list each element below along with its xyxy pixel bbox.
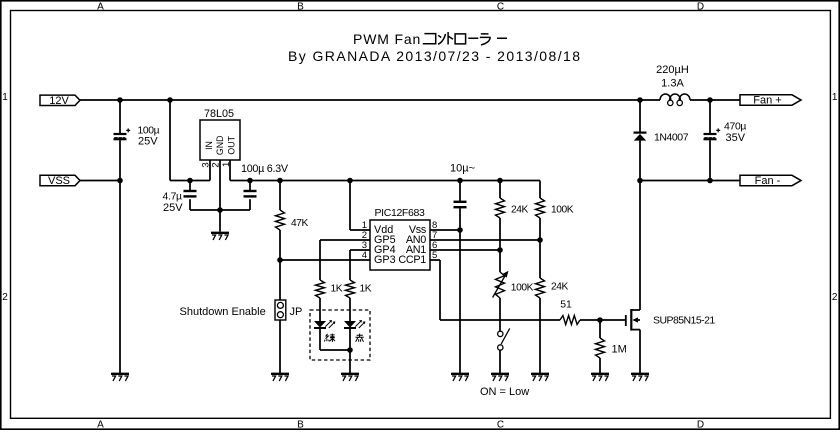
svg-text:51: 51 (560, 300, 572, 311)
svg-text:78L05: 78L05 (204, 108, 234, 120)
svg-text:24K: 24K (511, 205, 529, 216)
svg-text:1K: 1K (331, 284, 343, 295)
svg-text:2: 2 (832, 292, 838, 303)
svg-text:B: B (297, 1, 304, 12)
svg-text:PWM Fan: PWM Fan (353, 31, 421, 47)
svg-text:2: 2 (2, 292, 8, 303)
svg-text:220µH: 220µH (656, 64, 689, 76)
svg-text:JP: JP (290, 306, 303, 318)
svg-text:4.7µ: 4.7µ (163, 191, 183, 202)
svg-text:25V: 25V (163, 202, 183, 214)
svg-text:100K: 100K (511, 283, 534, 294)
svg-text:GND: GND (215, 136, 225, 156)
svg-text:CCP1: CCP1 (398, 254, 426, 266)
svg-text:Fan -: Fan - (755, 175, 781, 187)
svg-text:A: A (97, 420, 104, 430)
svg-text:470µ: 470µ (724, 122, 746, 133)
svg-text:IN: IN (204, 141, 214, 150)
svg-text:Shutdown Enable: Shutdown Enable (180, 306, 266, 318)
svg-text:1.3A: 1.3A (661, 77, 684, 89)
svg-text:C: C (497, 1, 504, 12)
svg-text:2: 2 (210, 162, 221, 167)
svg-text:35V: 35V (726, 132, 746, 144)
svg-text:100µ 6.3V: 100µ 6.3V (241, 163, 289, 175)
svg-text:By GRANADA 2013/07/23 - 2013/0: By GRANADA 2013/07/23 - 2013/08/18 (288, 48, 581, 64)
svg-text:Fan +: Fan + (753, 95, 781, 107)
svg-text:B: B (297, 420, 304, 430)
svg-text:47K: 47K (291, 218, 309, 229)
svg-text:100K: 100K (551, 205, 574, 216)
svg-text:1M: 1M (612, 344, 627, 356)
svg-text:5: 5 (432, 250, 437, 261)
svg-text:GP3: GP3 (374, 254, 396, 266)
svg-text:1: 1 (832, 92, 838, 103)
svg-text:1K: 1K (360, 284, 372, 295)
svg-text:1N4007: 1N4007 (654, 132, 689, 144)
svg-text:A: A (97, 1, 104, 12)
svg-text:12V: 12V (49, 95, 69, 107)
svg-text:OUT: OUT (227, 135, 237, 154)
svg-text:4: 4 (362, 250, 367, 261)
svg-text:PIC12F683: PIC12F683 (375, 207, 425, 219)
svg-text:24K: 24K (551, 282, 569, 293)
svg-text:ON = Low: ON = Low (480, 386, 529, 398)
svg-text:1: 1 (2, 92, 8, 103)
svg-text:SUP85N15-21: SUP85N15-21 (653, 314, 715, 326)
svg-text:10µ~: 10µ~ (450, 162, 475, 174)
svg-text:C: C (497, 420, 504, 430)
svg-text:D: D (697, 1, 704, 12)
svg-text:D: D (697, 420, 704, 430)
svg-text:25V: 25V (138, 136, 158, 148)
svg-text:VSS: VSS (48, 175, 70, 187)
svg-text:1: 1 (221, 162, 232, 167)
